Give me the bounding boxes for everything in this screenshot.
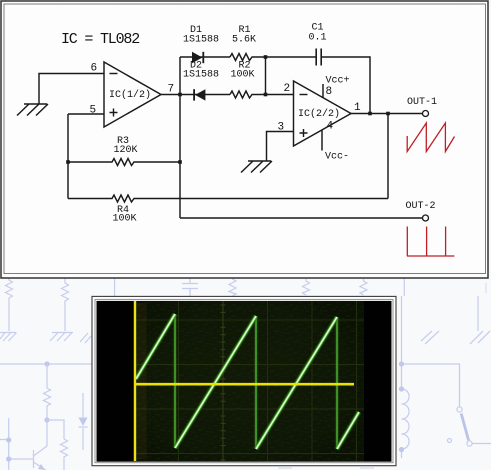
scope cursor yellow horizontal — [134, 383, 354, 386]
svg-text:1S1588: 1S1588 — [183, 70, 219, 81]
node R3/x180 — [178, 160, 182, 164]
op-amp U1 IC(1/2) — [104, 62, 161, 127]
bg switch circle bottom — [467, 441, 472, 446]
svg-text:100K: 100K — [231, 70, 255, 81]
scope trace ramps glow — [136, 314, 359, 449]
bg switch wire right — [472, 443, 491, 445]
svg-text:1: 1 — [354, 102, 361, 114]
wire pin4 Vcc- — [321, 130, 323, 151]
bg wire horiz y364 left — [0, 363, 92, 365]
bg wire (47,420) to (64,420) down — [47, 420, 64, 439]
junction dots — [66, 55, 390, 164]
wire node vertical x265 — [265, 57, 267, 95]
bg diode col x83 — [82, 393, 84, 450]
wire C1 right to output — [321, 57, 370, 114]
bg resistor col x363.5 — [360, 279, 367, 295]
svg-text:8: 8 — [326, 86, 333, 98]
node pin7/x180 — [178, 93, 182, 97]
bg capacitor col x190 — [182, 277, 198, 296]
op-amp U1 plus input sign — [110, 109, 118, 117]
ground G2 — [241, 161, 272, 173]
terminal OUT-1 — [423, 111, 429, 117]
schematic panel white background — [1, 1, 488, 278]
wire pin6 input — [39, 74, 104, 105]
bg resistor col x9 — [6, 277, 13, 331]
bg junction dot (8.7,440) — [6, 437, 11, 442]
CRT glow vignette — [134, 301, 365, 461]
wire node vertical x180 — [179, 57, 181, 218]
svg-text:5.6K: 5.6K — [232, 35, 256, 46]
wire output pin1 to OUT-1 — [351, 113, 422, 115]
op-amp U1 minus input sign — [110, 73, 118, 75]
CRT graticule — [134, 301, 364, 461]
bg junction dot (401.5,364) — [399, 361, 404, 366]
node top x265 — [264, 55, 268, 59]
op-amp U2 plus input sign — [300, 129, 308, 137]
wire pin5 input — [68, 113, 104, 115]
wire pin8 Vcc+ — [322, 84, 324, 98]
CRT noise texture — [134, 301, 365, 461]
bg ground col x9 — [0, 333, 17, 342]
svg-text:1S1588: 1S1588 — [183, 35, 219, 46]
svg-text:OUT-2: OUT-2 — [406, 201, 436, 212]
bg hatch right 2 — [470, 331, 490, 344]
wire top branch D1/R1/C1 — [180, 56, 230, 58]
svg-text:IC(2/2): IC(2/2) — [298, 108, 340, 120]
svg-text:5: 5 — [90, 105, 97, 117]
bg transistor Q — [34, 420, 48, 470]
bg resistor col x47 — [44, 364, 51, 418]
terminal OUT-2 — [423, 215, 429, 221]
PANEL — [1, 1, 488, 278]
diode D1 — [192, 52, 204, 63]
scope trace ramps core — [136, 314, 359, 449]
svg-text:6: 6 — [91, 63, 98, 75]
ground G1 — [17, 104, 48, 116]
svg-text:Vcc-: Vcc- — [325, 152, 349, 163]
diode D2 — [193, 89, 205, 100]
svg-text:2: 2 — [284, 83, 291, 95]
bg faint dash x486 — [485, 283, 487, 293]
bg plain vertical x114.6 — [114, 277, 116, 296]
scope cursor yellow vertical — [134, 301, 136, 461]
bg dash below photo 2 — [360, 467, 374, 469]
bg resistor col x65 — [62, 277, 69, 331]
CRT brown tint band — [137, 303, 147, 459]
bg transistor arrow — [38, 464, 45, 470]
bg plain vertical x404.3 — [403, 277, 405, 296]
wire left feedback vertical — [67, 114, 69, 199]
bg partial ground x86 — [80, 333, 91, 343]
bg top edge dashes — [6, 0, 464, 2]
resistor R3 — [68, 159, 180, 166]
wire pin3 input — [267, 132, 294, 162]
wire right feedback vertical x388 — [387, 114, 389, 199]
bg junction dot (8.7,459) — [6, 456, 11, 461]
bg resistor col x306 — [303, 279, 310, 295]
svg-text:3: 3 — [278, 122, 285, 134]
op-amp U2 minus input sign — [300, 94, 308, 96]
svg-text:120K: 120K — [114, 145, 138, 156]
node R3 left — [66, 160, 70, 164]
node pin2 x265 — [264, 93, 268, 97]
bg dash below photo 1 — [278, 467, 292, 469]
bg wire base x8.7 — [0, 418, 34, 470]
scope photo frame inner line — [95, 299, 393, 462]
wire OUT-2 line — [180, 217, 422, 219]
svg-text:7: 7 — [168, 84, 175, 96]
bg junction dot (47,364) — [44, 361, 49, 366]
bg resistor col x64 — [61, 439, 68, 470]
bg junction dot (47,420) — [44, 417, 49, 422]
panel inner border — [4, 4, 486, 274]
scope photo frame outer — [92, 296, 396, 465]
scope photo black content — [97, 301, 392, 462]
bg ground col x65 — [50, 333, 73, 342]
capacitor C1 — [316, 49, 321, 66]
node R4/output — [386, 112, 390, 116]
scope trace falls glow — [175, 314, 337, 449]
wire pin7 output to pin2 — [161, 94, 230, 96]
svg-text:100K: 100K — [113, 214, 137, 225]
resistor R4 — [68, 195, 388, 202]
waveform OUT-2 pulses — [407, 227, 455, 257]
scope trace ramps mid — [136, 314, 359, 449]
node C1/output — [368, 112, 372, 116]
svg-text:IC(1/2): IC(1/2) — [109, 89, 151, 101]
svg-text:Vcc+: Vcc+ — [326, 76, 350, 87]
bg switch bar — [461, 414, 468, 441]
bg hatch right 1 — [421, 331, 439, 344]
resistor R2 — [230, 91, 294, 98]
resistor R1 — [230, 54, 316, 61]
bg switch circle top — [457, 407, 462, 412]
bg inductor col x401.5 — [402, 364, 410, 458]
CRT screen base — [134, 301, 365, 461]
op-amp U2 IC(2/2) — [294, 81, 352, 146]
bg junction dot (401.5,389) — [399, 386, 404, 391]
bg junction dot (401.5,449.5) — [399, 447, 404, 452]
svg-text:4: 4 — [327, 121, 334, 133]
bg vertical x401.5 right band — [401, 296, 403, 364]
CRT center axis ticks — [221, 301, 226, 461]
svg-text:IC = TL082: IC = TL082 — [61, 31, 139, 48]
bg vertical x478 — [477, 296, 479, 331]
bg resistor col x232.6 — [229, 277, 236, 296]
waveform OUT-1 sawtooth — [407, 123, 454, 152]
scope trace falls — [175, 314, 337, 449]
bg switch pole small — [448, 439, 452, 443]
svg-text:0.1: 0.1 — [309, 33, 327, 44]
svg-text:OUT-1: OUT-1 — [407, 97, 437, 108]
bg wire horiz y364 right — [402, 364, 460, 407]
